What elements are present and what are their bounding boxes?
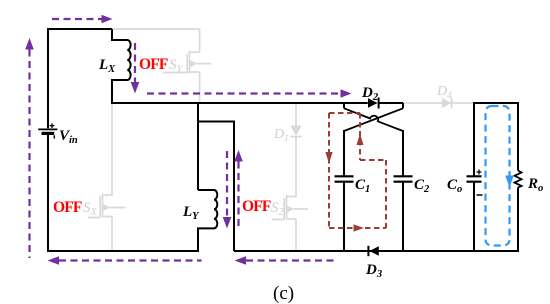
node stub right of D2: [402, 103, 404, 108]
svg-text:Ro: Ro: [527, 176, 543, 194]
gray wire: top branch to SY: [113, 29, 200, 52]
loop arrow: up (dark red): [356, 134, 363, 145]
inductor LY: [198, 190, 217, 252]
svg-text:D1: D1: [273, 127, 289, 144]
transistor S2 arrow (gray): [287, 206, 294, 213]
svg-text:D3: D3: [365, 262, 382, 280]
transistor SY (gray, off): [163, 51, 211, 103]
wire: left vertical (Vin branch): [47, 28, 49, 252]
svg-text:OFF: OFF: [242, 198, 271, 215]
svg-text:SX: SX: [83, 200, 98, 218]
svg-text:C1: C1: [355, 177, 370, 195]
capacitor C1: [335, 130, 354, 252]
capacitor C2: [394, 130, 413, 252]
flow arrow: bottom left (purple): [48, 256, 202, 265]
diode D4 (gray): [442, 98, 452, 109]
wire: bottom rail: [234, 250, 519, 252]
svg-text:LY: LY: [182, 204, 200, 222]
loop: C1 charge path (dark red dashed): [329, 113, 386, 228]
wire: top left horizontal: [47, 28, 112, 30]
wire: middle step branch: [197, 122, 234, 252]
svg-text:D4: D4: [436, 84, 452, 101]
diode D3: [368, 246, 378, 256]
flow arrow: left vertical up (purple): [25, 38, 34, 258]
battery Vin: [38, 123, 57, 138]
loop: output current (blue dashed): [486, 106, 514, 246]
flow arrow: LX discharge down (purple): [131, 43, 140, 94]
flow arrow: mid horizontal right (purple): [147, 89, 352, 98]
svg-text:OFF: OFF: [139, 56, 168, 73]
diode D2: [368, 98, 403, 109]
svg-text:SY: SY: [169, 57, 184, 75]
svg-text:D2: D2: [361, 85, 379, 103]
svg-text:(c): (c): [273, 283, 294, 304]
loop arrow: down (dark red): [325, 152, 332, 164]
wire: cross diagonal plain: [344, 108, 403, 131]
flow arrow: bottom middle (purple): [235, 256, 339, 265]
transistor SX arrow (gray): [103, 204, 110, 211]
resistor Ro: [515, 102, 522, 252]
node stub left of D2: [343, 103, 345, 108]
wire: LY branch lead: [197, 103, 199, 190]
svg-text:LX: LX: [98, 57, 116, 75]
flow arrow: top (purple): [52, 15, 113, 24]
wire: main bus: [111, 102, 368, 104]
wire: bottom left: [47, 250, 199, 252]
svg-text:S2: S2: [271, 200, 284, 218]
wire: output box top: [474, 102, 519, 104]
svg-text:C2: C2: [414, 177, 430, 195]
svg-text:OFF: OFF: [53, 199, 82, 216]
flow arrow: LY left down (purple): [223, 151, 232, 229]
diode D1 (gray): [290, 126, 301, 137]
flow arrow: LY right up (purple): [234, 150, 243, 228]
svg-text:Co: Co: [447, 177, 462, 195]
loop arrow: right (dark red): [354, 224, 365, 231]
wire: cross diagonal with hop: [344, 108, 403, 131]
capacitor Co: [467, 102, 483, 252]
gray wire: D1/S2 branch: [272, 104, 308, 250]
svg-text:Vin: Vin: [59, 128, 78, 146]
inductor LX: [112, 29, 131, 104]
gray wire: D4 top link: [403, 102, 474, 104]
gray wire: SX branch: [88, 104, 126, 250]
